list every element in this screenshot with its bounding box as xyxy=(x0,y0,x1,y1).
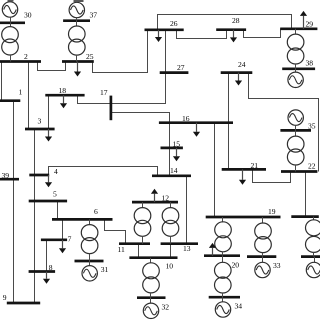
transformer T23-36 xyxy=(306,220,320,253)
wire 16-21 xyxy=(228,123,230,170)
bus 9 xyxy=(7,302,40,305)
generator G34 stub xyxy=(222,297,224,302)
bus 2 xyxy=(0,60,41,63)
transformer T19-20 stub top xyxy=(222,217,224,222)
bus 16 xyxy=(159,121,233,124)
bus 34 xyxy=(209,296,240,299)
bus 21 xyxy=(222,168,266,171)
generator G30 stub xyxy=(10,17,12,23)
svg-text:24: 24 xyxy=(238,60,246,69)
transformer T12-13 stub bottom xyxy=(170,236,172,244)
svg-text:38: 38 xyxy=(306,58,314,67)
svg-text:12: 12 xyxy=(162,194,170,203)
transformer T12-13 xyxy=(162,208,179,237)
transformer T29-38 stub bottom xyxy=(295,64,297,69)
transformer T10-32 stub bottom xyxy=(150,293,152,298)
generator G31 xyxy=(82,266,97,281)
wire 39-9 xyxy=(13,180,15,303)
transformer T30-2 xyxy=(2,27,19,55)
transformer T19-33 xyxy=(255,223,272,253)
load arrow bus 16 xyxy=(193,123,200,137)
wire 27-17 xyxy=(111,73,166,104)
wire 1-2 xyxy=(1,62,3,101)
wire 14-13 xyxy=(186,176,188,244)
svg-text:21: 21 xyxy=(251,161,259,170)
bus 10 xyxy=(129,256,177,259)
svg-text:37: 37 xyxy=(90,11,98,20)
generator G31 stub xyxy=(89,261,91,266)
generator G33 stub xyxy=(262,257,264,263)
wire 7-8 xyxy=(46,240,48,272)
bus 1 xyxy=(0,99,20,102)
svg-text:25: 25 xyxy=(86,52,94,61)
load arrow bus 26 xyxy=(155,30,162,42)
svg-text:18: 18 xyxy=(59,86,67,95)
bus 24 xyxy=(221,71,253,74)
bus 22 xyxy=(281,170,317,173)
transformer T12-11 stub top xyxy=(142,202,144,208)
bus 38 xyxy=(282,67,315,70)
bus 35 xyxy=(280,129,311,132)
svg-text:10: 10 xyxy=(166,262,174,271)
transformer T30-2 stub bottom xyxy=(10,55,12,62)
transformer T19-33 stub bottom xyxy=(262,253,264,257)
load arrow bus 18 xyxy=(60,95,67,108)
bus 13 xyxy=(161,242,198,245)
transformer T12-11 stub bottom xyxy=(142,236,144,244)
svg-text:34: 34 xyxy=(235,301,243,310)
load arrow bus 4 xyxy=(45,175,52,187)
bus 30 xyxy=(0,21,25,24)
bus 26 xyxy=(145,28,184,31)
bus 15 xyxy=(161,147,183,150)
wire 13-10 xyxy=(170,244,172,258)
transformer T10-32 stub top xyxy=(150,258,152,263)
bus 11 xyxy=(119,242,150,245)
svg-text:14: 14 xyxy=(170,166,178,175)
transformer T30-2 stub top xyxy=(10,23,12,27)
svg-text:9: 9 xyxy=(3,293,7,302)
svg-text:27: 27 xyxy=(177,63,185,72)
svg-text:16: 16 xyxy=(182,114,190,123)
svg-text:7: 7 xyxy=(68,234,72,243)
wire 6-7 xyxy=(62,220,64,240)
wire 2-3 xyxy=(28,62,30,129)
svg-text:8: 8 xyxy=(49,263,53,272)
bus 32 xyxy=(137,296,166,299)
load arrow bus 15 xyxy=(173,148,180,161)
bus 12 xyxy=(132,201,178,204)
wire 18-17 xyxy=(78,96,111,104)
crop mark above G30 xyxy=(8,0,14,2)
wire 26-27 xyxy=(165,30,167,73)
svg-text:35: 35 xyxy=(308,121,316,130)
transformer T19-33 stub top xyxy=(262,217,264,223)
wire 17-16 xyxy=(111,113,170,123)
transformer T20-34 xyxy=(215,262,232,293)
generator G32 stub xyxy=(150,298,152,304)
svg-text:26: 26 xyxy=(170,19,178,28)
transformer T20-34 stub bottom xyxy=(222,293,224,297)
load arrow bus 24 xyxy=(235,73,242,86)
svg-text:5: 5 xyxy=(53,189,57,198)
svg-text:31: 31 xyxy=(101,265,109,274)
crop mark above G37 xyxy=(74,0,84,2)
transformer T35-22 xyxy=(287,136,304,165)
svg-text:32: 32 xyxy=(162,303,170,312)
bus 23 xyxy=(291,215,319,218)
bus 14 xyxy=(152,174,191,177)
svg-text:22: 22 xyxy=(308,162,316,171)
svg-text:39: 39 xyxy=(2,171,10,180)
wire 26-28 xyxy=(177,30,227,39)
transformer T37-25 xyxy=(69,26,86,55)
load arrow bus 7 xyxy=(59,240,66,253)
svg-text:33: 33 xyxy=(273,261,281,270)
svg-text:11: 11 xyxy=(118,245,126,254)
bus 39 xyxy=(0,178,19,181)
generator G35 xyxy=(288,110,303,125)
load arrow bus 3 xyxy=(45,129,52,142)
load arrow bus 21 xyxy=(239,169,246,184)
transformer T6-31 stub top xyxy=(89,219,91,224)
wire 24-16 xyxy=(228,73,230,123)
wire 4-14 xyxy=(49,167,158,176)
generator G38 stub xyxy=(295,69,297,72)
bus 6 xyxy=(52,218,113,221)
bus 4 xyxy=(29,174,49,177)
generator G35 stub xyxy=(295,125,297,130)
generator G37 stub xyxy=(76,18,78,21)
bus 31 xyxy=(75,260,104,263)
wire 1-39 xyxy=(13,101,15,180)
svg-text:30: 30 xyxy=(24,11,32,20)
load arrow bus 20 (up) xyxy=(209,243,216,256)
wire 28-29 xyxy=(244,29,281,38)
load arrow bus 25 xyxy=(74,62,81,77)
bus 37 xyxy=(63,19,90,22)
transformer T35-22 stub bottom xyxy=(295,165,297,172)
wire 5-6 xyxy=(57,201,59,220)
svg-text:2: 2 xyxy=(24,52,28,61)
generator G32 xyxy=(143,303,158,318)
load arrow bus 29 (up) xyxy=(300,11,307,29)
transformer T6-31 stub bottom xyxy=(89,254,91,262)
bus 33 xyxy=(247,255,276,258)
svg-text:4: 4 xyxy=(54,167,58,176)
wire 26-29 (top) xyxy=(158,15,292,30)
wire 11-10 xyxy=(138,244,140,258)
wire 22-23 xyxy=(305,172,307,217)
transformer T29-38 stub top xyxy=(295,29,297,34)
generator G36 xyxy=(306,262,320,277)
wire 21-22 xyxy=(253,170,291,183)
generator G33 xyxy=(255,262,270,277)
bus 3 xyxy=(25,128,55,131)
wire 8-9 xyxy=(34,272,36,303)
svg-text:19: 19 xyxy=(268,207,276,216)
bus 25 xyxy=(62,60,94,63)
svg-text:28: 28 xyxy=(232,16,240,25)
transformer T12-13 stub top xyxy=(170,202,172,208)
transformer T29-38 xyxy=(287,34,304,64)
bus 20 xyxy=(204,254,240,257)
generator G37 xyxy=(69,2,84,17)
generator G30 xyxy=(2,2,17,17)
bus 29 xyxy=(280,27,317,30)
transformer T23-36 stub bottom xyxy=(313,252,315,256)
wire 15-14 xyxy=(169,148,171,176)
svg-text:13: 13 xyxy=(183,244,191,253)
bus 18 xyxy=(45,94,84,97)
svg-text:1: 1 xyxy=(19,88,23,97)
generator G34 xyxy=(215,302,230,317)
svg-text:29: 29 xyxy=(306,20,314,29)
bus 8 xyxy=(29,270,55,273)
wire 6-11 xyxy=(105,220,126,244)
transformer T10-32 xyxy=(143,263,160,293)
wire 16-19 xyxy=(214,123,216,217)
transformer T6-31 xyxy=(81,225,98,254)
wire 16-15 xyxy=(169,123,171,148)
transformer T23-36 stub top xyxy=(313,217,315,220)
transformer T19-20 xyxy=(215,222,232,252)
load arrow bus 8 xyxy=(43,272,50,284)
load arrow bus 28 xyxy=(230,30,237,43)
transformer T12-11 xyxy=(134,208,151,237)
bus 19 xyxy=(206,216,281,219)
bus 17 xyxy=(110,96,113,121)
bus 36 xyxy=(301,255,320,258)
load arrow bus 12 (up) xyxy=(151,189,158,202)
svg-text:17: 17 xyxy=(100,88,108,97)
svg-text:20: 20 xyxy=(232,260,240,269)
wire 2-25 xyxy=(38,62,66,71)
transformer T37-25 stub top xyxy=(76,21,78,27)
svg-text:3: 3 xyxy=(38,117,42,126)
generator G36 stub xyxy=(314,257,316,263)
wire 3-18 xyxy=(48,96,50,129)
bus 7 xyxy=(41,238,67,241)
generator G38 xyxy=(288,72,303,87)
svg-text:6: 6 xyxy=(94,207,98,216)
bus 28 xyxy=(216,28,246,31)
bus 5 xyxy=(29,200,67,203)
wire 25-26 xyxy=(93,30,148,73)
svg-text:15: 15 xyxy=(173,140,181,149)
wire 24-22 xyxy=(249,73,319,172)
transformer T19-20 stub bottom xyxy=(222,252,224,256)
transformer T20-34 stub top xyxy=(222,256,224,263)
wire 3-4-5-8 xyxy=(34,129,36,272)
transformer T35-22 stub top xyxy=(295,130,297,136)
transformer T37-25 stub bottom xyxy=(76,55,78,62)
bus 27 xyxy=(160,71,189,74)
